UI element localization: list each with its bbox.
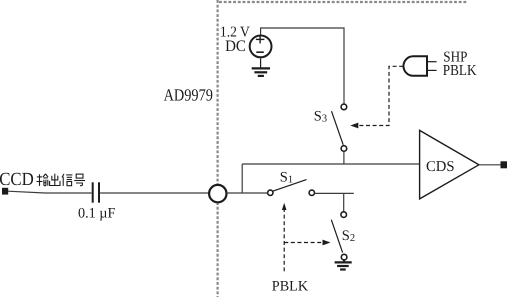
minus sign [256, 51, 264, 53]
gate input stubs [427, 61, 437, 63]
ground under voltage source [252, 58, 270, 76]
wire: source top to S3 top [261, 28, 344, 104]
ground under S2 [335, 260, 352, 270]
glyph 信 [62, 174, 72, 186]
wire: down to S2 [343, 193, 345, 211]
op-amp CDS [420, 130, 479, 199]
wire: S3 bottom to CDS rail [343, 151, 345, 164]
arrowhead at S1 [282, 203, 287, 210]
switch S1 [268, 180, 315, 196]
node: output terminal (black square) [501, 161, 507, 168]
node: CCD input terminal (black square) [2, 188, 8, 195]
plus sign [256, 35, 265, 43]
capacitor 0.1uF plates [92, 182, 94, 202]
AD9979 chip boundary (dashed) horizontal top [219, 1, 467, 3]
switch S3 [332, 104, 347, 151]
wire: capacitor to input pin node [100, 192, 209, 194]
wire: pin to S1 [227, 192, 269, 194]
switch S2 [331, 212, 347, 260]
wire: CDS input rail [242, 163, 419, 165]
wire: branch vertical up to CDS rail [241, 164, 243, 193]
AD9979 chip boundary (dashed) vertical [217, 0, 219, 297]
arrowhead at S2 [323, 240, 331, 246]
dashed control: PBLK to S1/S2 [283, 208, 285, 271]
dashed control: gate to S3 [354, 66, 403, 125]
wire: input to capacitor [8, 191, 92, 193]
svg-text:CDS: CDS [426, 159, 455, 175]
voltage source 1.2V DC [250, 36, 272, 58]
arrowhead at S3 [350, 123, 358, 129]
label CCD输出信号 [0, 170, 85, 190]
glyph 输 [37, 174, 49, 186]
svg-text:AD9979: AD9979 [164, 86, 213, 105]
glyph 号 [74, 174, 85, 186]
wire: S1 to S2 branch [315, 192, 354, 194]
svg-text:PBLK: PBLK [272, 278, 309, 294]
glyph 出 [50, 174, 60, 186]
dashed branch to S2 [284, 242, 324, 244]
svg-text:PBLK: PBLK [443, 62, 477, 79]
wire: CDS output [479, 164, 501, 166]
gate (SHP/PBLK AND gate, mirrored) [403, 56, 427, 76]
svg-text:0.1 µF: 0.1 µF [78, 206, 115, 222]
svg-text:DC: DC [225, 38, 246, 55]
svg-text:CCD: CCD [0, 170, 34, 190]
node: input pin circle on boundary [209, 185, 226, 202]
